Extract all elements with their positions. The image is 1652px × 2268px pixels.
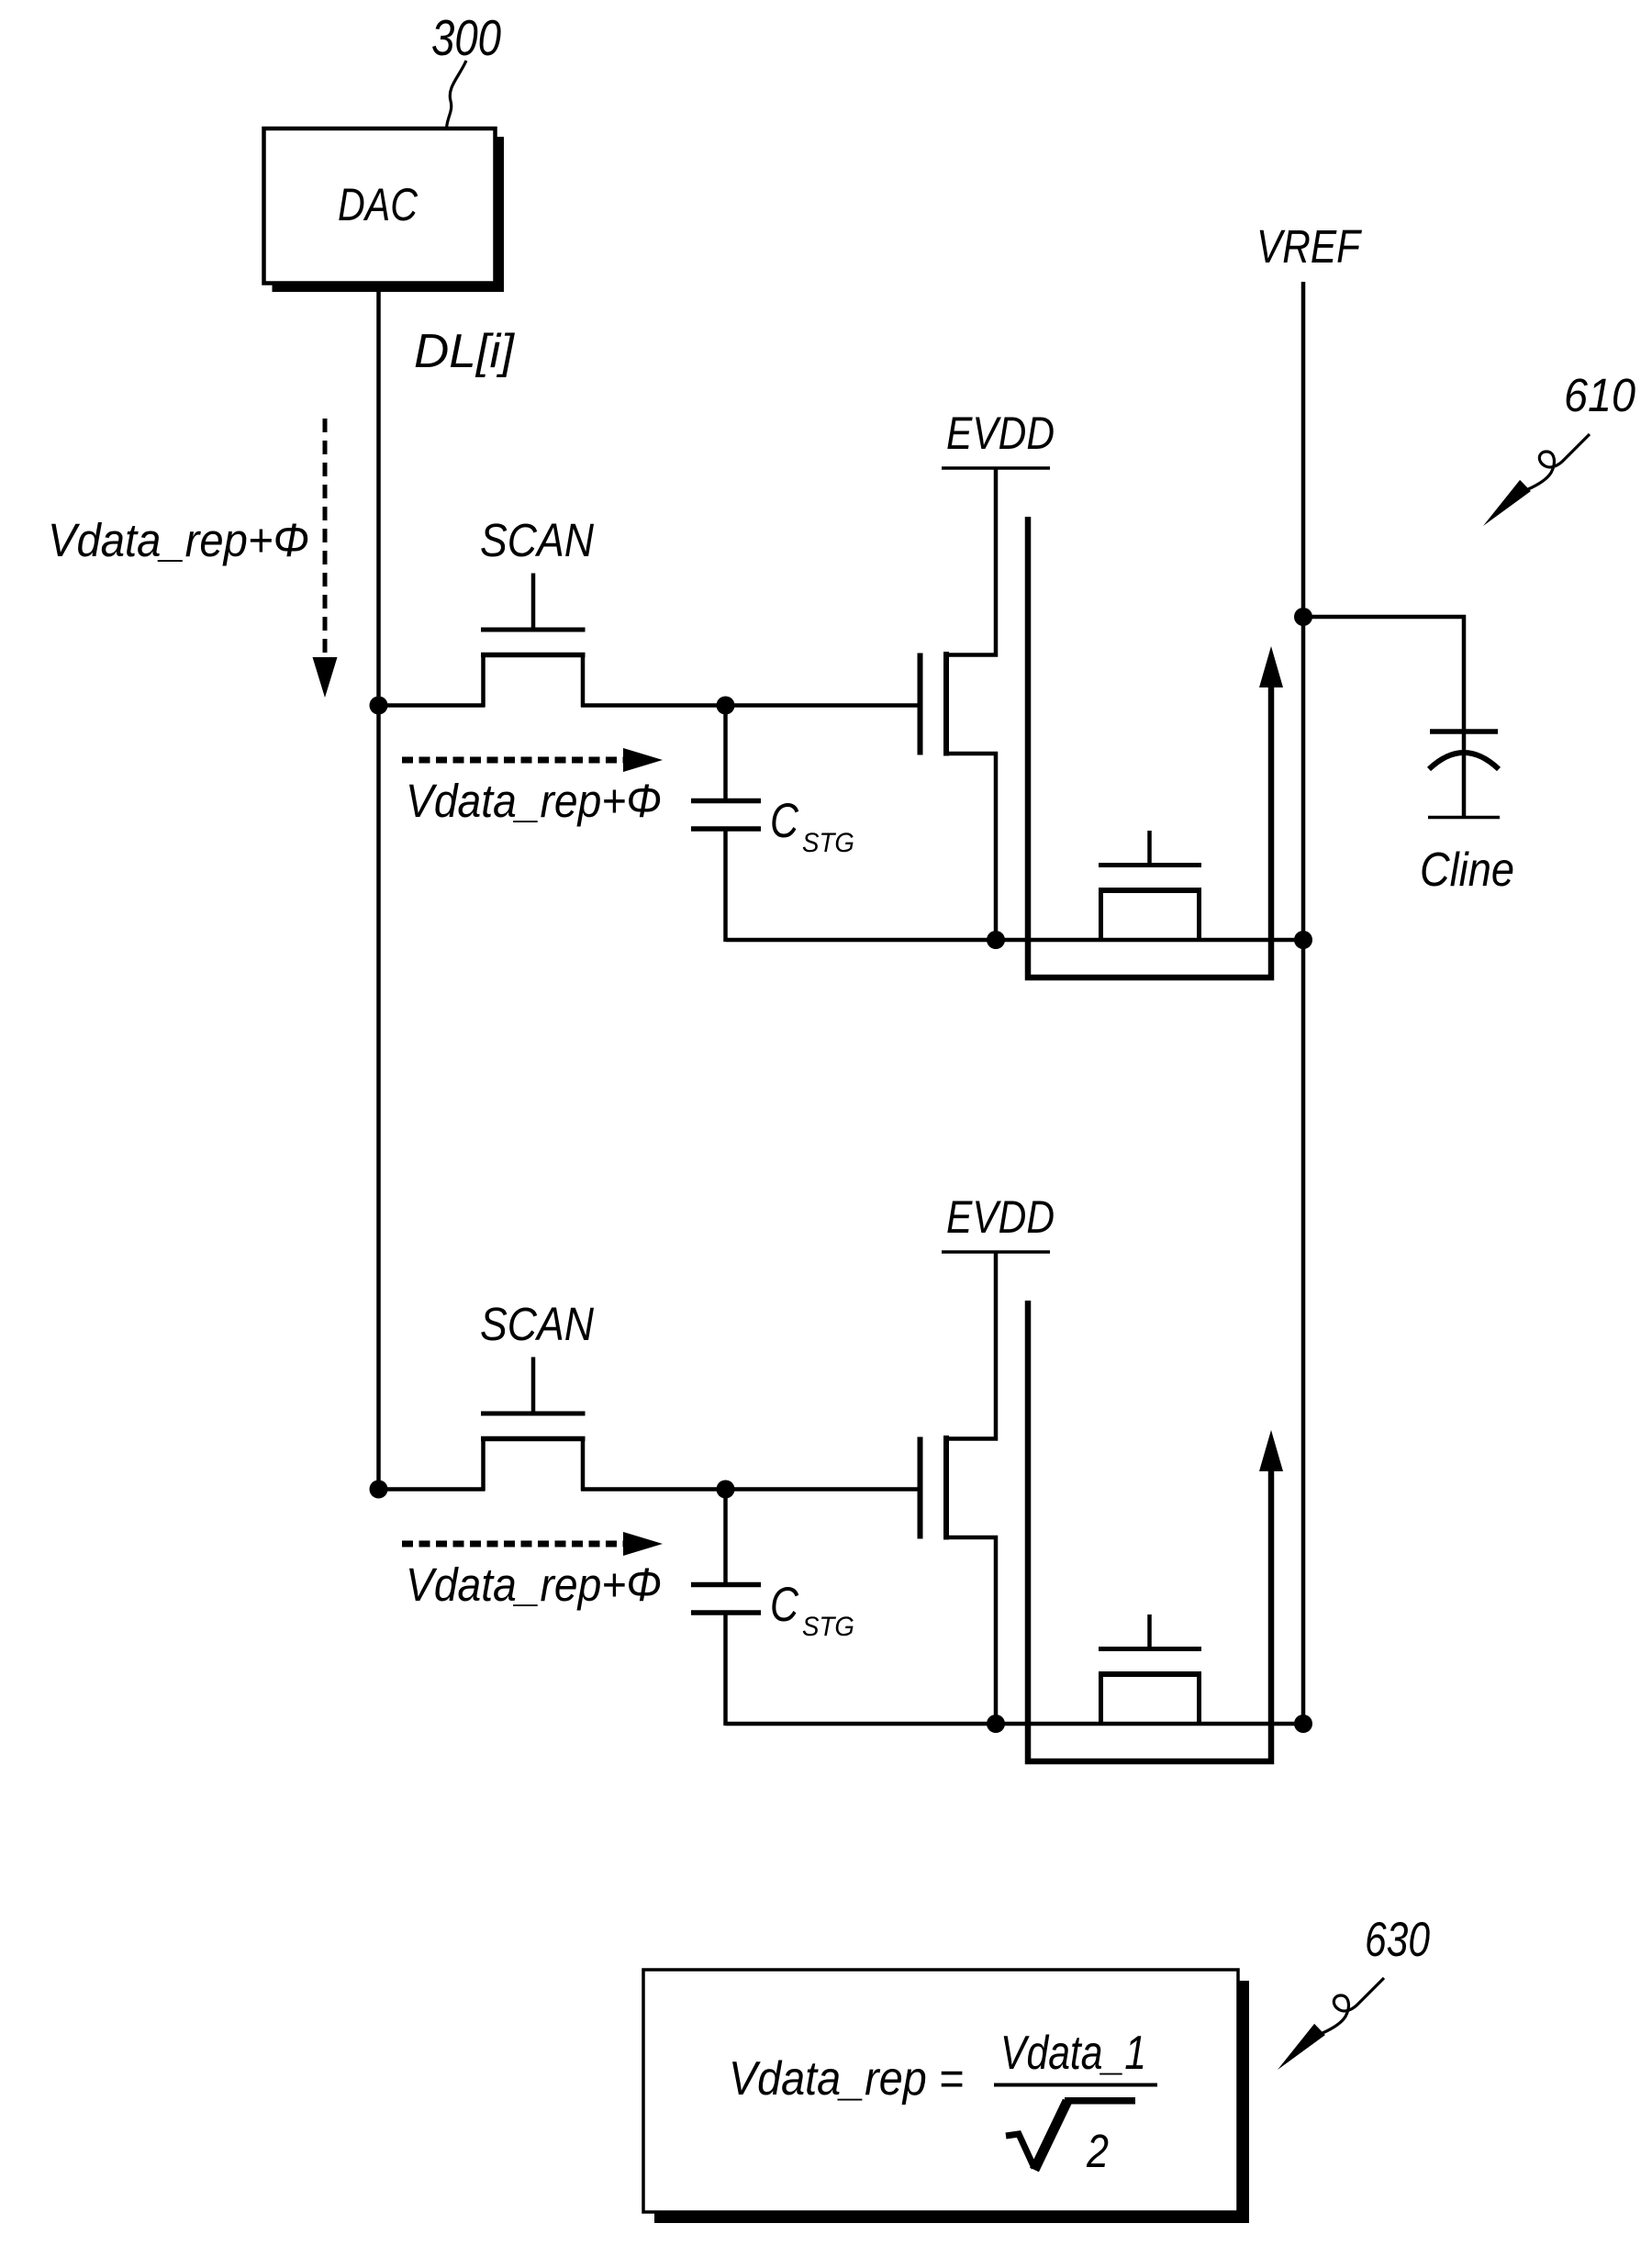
transistor T3 sense row1: channel bar xyxy=(1099,888,1201,893)
transistor T6 sense row2: source stub xyxy=(1099,1674,1103,1724)
node D1 (VREF junction row1 bottom) xyxy=(1294,931,1312,949)
svg-text:Cline: Cline xyxy=(1420,844,1514,897)
node E1 (VREF tap for Cline) xyxy=(1294,608,1312,626)
capacitor C_STG row2: bottom lead xyxy=(723,1613,728,1726)
capacitor Cline: top plate xyxy=(1430,729,1498,734)
node C2 (source junction row2) xyxy=(987,1715,1005,1733)
transistor T4 SCAN row2: channel bar xyxy=(481,1436,586,1442)
svg-text:STG: STG xyxy=(802,828,854,858)
transistor T6 sense row2: channel bar xyxy=(1099,1671,1201,1677)
transistor T5 drive row2: source lead down xyxy=(946,1537,996,1724)
svg-text:Vdata_rep =: Vdata_rep = xyxy=(729,2052,964,2106)
power EVDD row2 underline xyxy=(942,1250,1050,1254)
svg-text:SCAN: SCAN xyxy=(480,514,594,566)
dashed arrow Vdata transfer row2 xyxy=(402,1541,625,1547)
dashed arrow Vdata injection (vertical) xyxy=(323,419,328,655)
transistor T2 drive row1: drain lead to EVDD xyxy=(946,468,996,655)
capacitor Cline: bottom lead xyxy=(1462,732,1467,817)
leader arrow 630 (squiggle) xyxy=(1278,1978,1384,2070)
transistor T4 SCAN row2: drain stub xyxy=(581,1439,586,1491)
svg-text:Vdata_1: Vdata_1 xyxy=(1000,2027,1146,2080)
svg-text:VREF: VREF xyxy=(1256,220,1362,273)
transistor T3 sense row1: drain stub xyxy=(1197,890,1201,940)
transistor T3 sense row1: gate bar xyxy=(1099,863,1201,867)
svg-text:EVDD: EVDD xyxy=(946,408,1055,459)
transistor T6 sense row2: gate lead xyxy=(1147,1614,1152,1651)
transistor T1 SCAN row1: gate lead xyxy=(531,574,536,632)
dashed arrow Vdata transfer row1 xyxy=(402,757,625,764)
current arrow row1 (arrowhead up) xyxy=(1259,646,1283,687)
leader arrow 610 (squiggle) xyxy=(1483,434,1590,526)
pixel electrode row1 (thick U path) xyxy=(1028,517,1271,978)
capacitor C_STG row1: top plate xyxy=(691,799,761,804)
transistor T1 SCAN row1: gate bar xyxy=(481,628,586,632)
transistor T5 drive row2: channel bar xyxy=(943,1436,949,1540)
svg-text:STG: STG xyxy=(802,1612,854,1642)
formula box 630 xyxy=(643,1970,1238,2212)
transistor T1 SCAN row1: source stub xyxy=(481,655,486,707)
svg-text:300: 300 xyxy=(431,9,501,66)
capacitor Cline: bottom terminal bar xyxy=(1428,816,1500,820)
svg-text:DL[i]: DL[i] xyxy=(414,325,516,378)
wire T1 drain to node B1 xyxy=(581,703,726,708)
svg-text:Vdata_rep+Φ: Vdata_rep+Φ xyxy=(406,775,662,827)
transistor T5 drive row2: gate bar xyxy=(918,1437,923,1539)
formula box 630 shadow xyxy=(1238,1981,1249,2223)
capacitor C_STG row2: top lead xyxy=(723,1490,728,1586)
formula fraction bar xyxy=(994,2084,1157,2087)
wire T4 drain to node B2 xyxy=(581,1487,726,1492)
pixel electrode row2 (thick U path) xyxy=(1028,1301,1271,1761)
wire bottom row2 (cap to VREF) xyxy=(726,1722,1304,1726)
DAC block U1 shadow xyxy=(496,137,504,292)
wire B2 to T5 gate xyxy=(726,1487,919,1492)
node A1 (DL junction row1) xyxy=(370,697,388,715)
svg-text:610: 610 xyxy=(1564,369,1635,421)
transistor T1 SCAN row1: drain stub xyxy=(581,655,586,707)
wire bottom row1 (cap to VREF) xyxy=(726,938,1304,943)
transistor T6 sense row2: drain stub xyxy=(1197,1674,1201,1724)
current arrow row2 (arrowhead up) xyxy=(1259,1430,1283,1471)
transistor T1 SCAN row1: channel bar xyxy=(481,653,586,658)
wire VREF vertical xyxy=(1301,282,1306,1723)
transistor T2 drive row1: source lead down xyxy=(946,754,996,940)
transistor T4 SCAN row2: source stub xyxy=(481,1439,486,1491)
DAC block U1 xyxy=(264,128,496,284)
transistor T2 drive row1: channel bar xyxy=(943,652,949,756)
node D2 (VREF junction row2 bottom) xyxy=(1294,1715,1312,1733)
capacitor C_STG row2: bottom plate xyxy=(691,1610,761,1615)
capacitor Cline: curved plate xyxy=(1429,753,1499,769)
svg-text:EVDD: EVDD xyxy=(946,1191,1055,1243)
wire DL[i] data line vertical xyxy=(376,284,381,1489)
svg-text:Vdata_rep+Φ: Vdata_rep+Φ xyxy=(48,514,309,566)
svg-text:630: 630 xyxy=(1365,1913,1430,1967)
svg-text:Vdata_rep+Φ: Vdata_rep+Φ xyxy=(406,1559,662,1611)
svg-text:2: 2 xyxy=(1086,2125,1109,2177)
capacitor C_STG row1: top lead xyxy=(723,706,728,802)
svg-text:SCAN: SCAN xyxy=(480,1298,594,1350)
capacitor C_STG row1: bottom lead xyxy=(723,829,728,942)
formula radical sign xyxy=(1006,2134,1034,2168)
transistor T3 sense row1: source stub xyxy=(1099,890,1103,940)
wire A2 to SCAN T4 source xyxy=(379,1487,486,1492)
wire E1 to Cline xyxy=(1303,617,1464,732)
capacitor C_STG row1: bottom plate xyxy=(691,826,761,832)
wire A1 to SCAN T1 source xyxy=(379,703,486,708)
wire B1 to T2 gate xyxy=(726,703,919,708)
transistor T4 SCAN row2: gate lead xyxy=(531,1357,536,1416)
node B2 (storage node row2) xyxy=(717,1480,735,1499)
node A2 (DL junction row2) xyxy=(370,1480,388,1499)
node B1 (storage node row1) xyxy=(717,697,735,715)
node C1 (source junction row1) xyxy=(987,931,1005,949)
transistor T3 sense row1: gate lead xyxy=(1147,831,1152,867)
transistor T2 drive row1: gate bar xyxy=(918,654,923,755)
transistor T4 SCAN row2: gate bar xyxy=(481,1412,586,1416)
svg-text:DAC: DAC xyxy=(338,179,419,230)
leader line from 300 to DAC box xyxy=(447,61,467,128)
power EVDD row1 underline xyxy=(942,466,1050,470)
svg-text:C: C xyxy=(770,794,799,848)
transistor T6 sense row2: gate bar xyxy=(1099,1647,1201,1651)
transistor T5 drive row2: drain lead to EVDD xyxy=(946,1252,996,1439)
capacitor C_STG row2: top plate xyxy=(691,1582,761,1588)
svg-text:C: C xyxy=(770,1578,799,1632)
